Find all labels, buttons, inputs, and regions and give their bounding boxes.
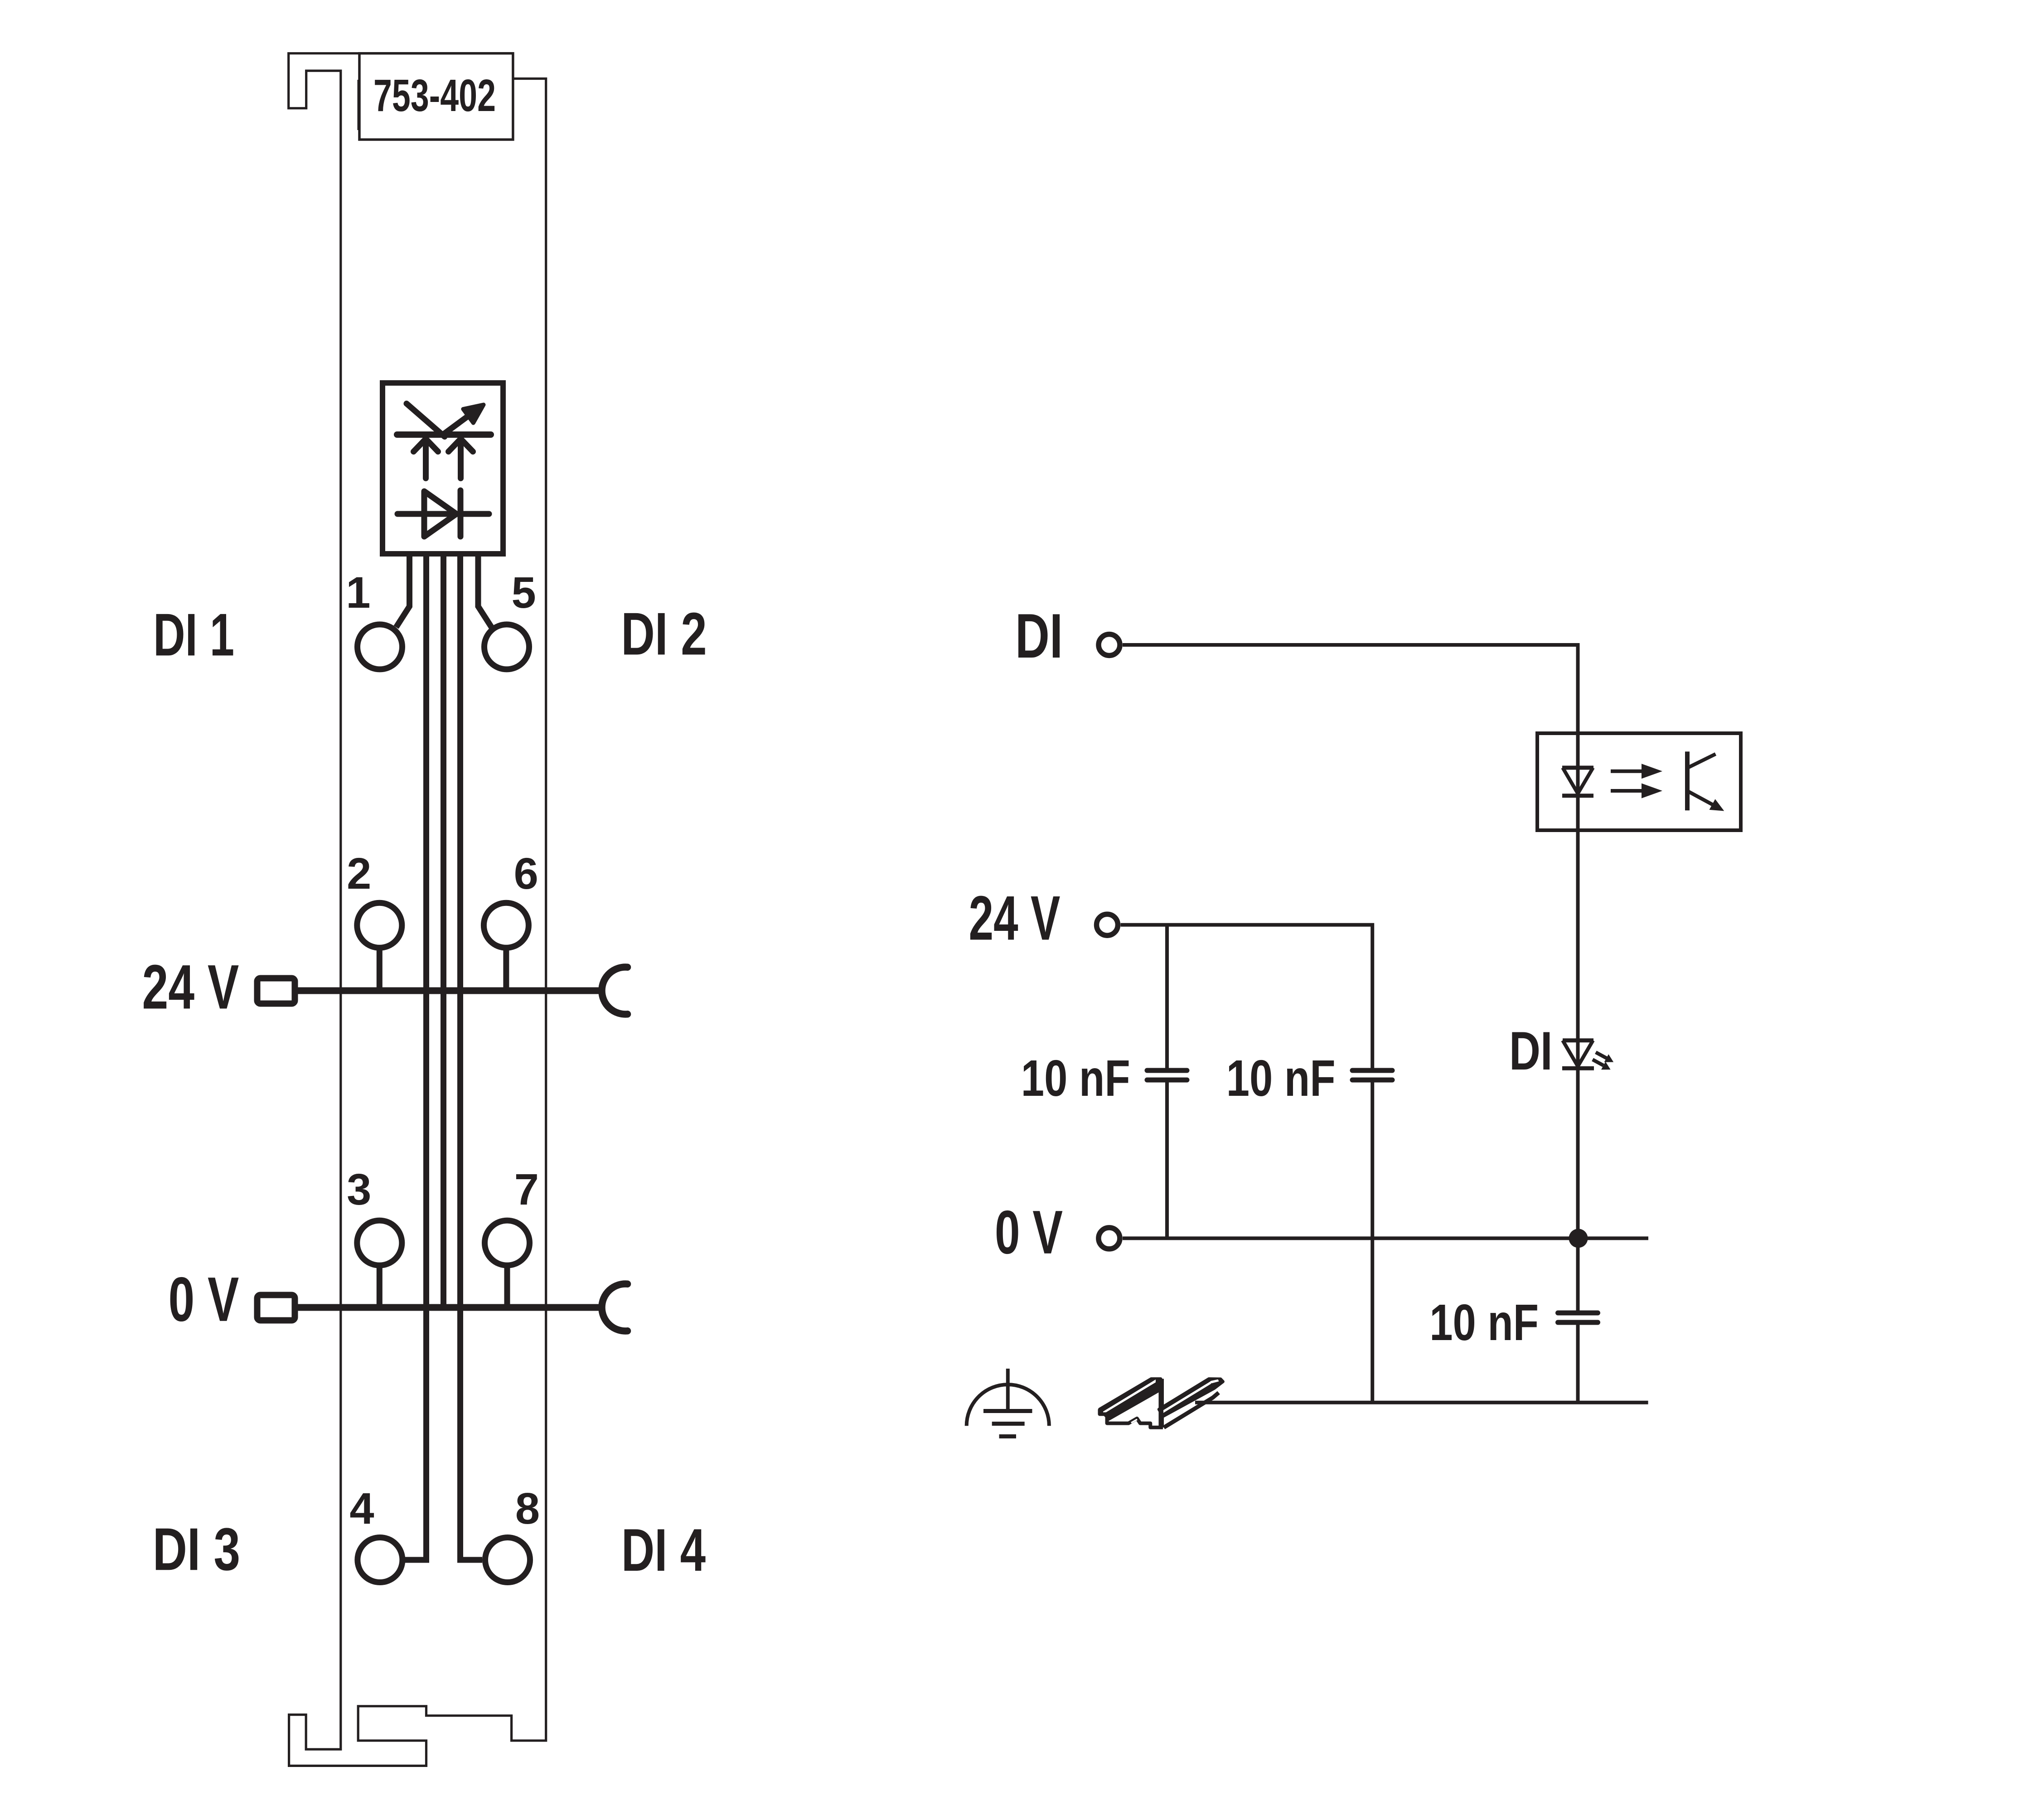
wire below capacitor C3 to ground line: [1576, 1322, 1580, 1403]
stem terminal6 to 24V bus: [503, 947, 509, 991]
optocoupler box U2: [1537, 733, 1741, 830]
U2 LED anode bar: [1562, 766, 1593, 770]
capacitor C2 plates: [1352, 1070, 1392, 1080]
wire DI to optocoupler: [1123, 645, 1578, 1313]
ground line: [1195, 1401, 1648, 1404]
svg-text:DI 3: DI 3: [153, 1516, 240, 1583]
terminal circle 4: [358, 1538, 402, 1583]
U1 icon: diagonal-in line: [407, 404, 445, 437]
svg-text:24 V: 24 V: [969, 883, 1061, 954]
wire common to 0V bus: [441, 551, 446, 1307]
terminal circle 2: [357, 903, 402, 948]
svg-text:10 nF: 10 nF: [1429, 1294, 1539, 1351]
svg-text:1: 1: [346, 568, 370, 617]
svg-text:24 V: 24 V: [142, 952, 239, 1022]
0V spring contact arc: [602, 1284, 628, 1331]
svg-text:DI: DI: [1509, 1021, 1553, 1081]
U1 icon: output arrow: [443, 405, 484, 435]
24V spring contact arc: [602, 967, 628, 1014]
terminal circle 6: [484, 903, 528, 948]
svg-text:DI 4: DI 4: [621, 1517, 706, 1584]
capacitor C1 upper wire: [1165, 925, 1169, 1070]
DI terminal circle: [1099, 634, 1120, 656]
U2 coupling arrow lower: [1611, 784, 1662, 799]
wire pin1: [396, 551, 410, 627]
terminal circle 1: [358, 624, 402, 669]
svg-text:2: 2: [347, 849, 371, 898]
U2 LED triangle: [1563, 768, 1593, 794]
0V power bus: [297, 1304, 602, 1311]
svg-text:3: 3: [347, 1165, 371, 1214]
svg-text:DI: DI: [1015, 601, 1063, 671]
U1 icon: input bar: [397, 431, 491, 438]
svg-text:10 nF: 10 nF: [1021, 1050, 1130, 1107]
U1 icon: right up-arrow: [449, 439, 473, 478]
rail notch highlight: [1131, 1419, 1137, 1423]
earth ground symbol: [967, 1369, 1049, 1437]
rail left ridge highlight stripe: [1103, 1380, 1156, 1414]
rail bottom-right edge: [1164, 1393, 1219, 1428]
svg-text:DI 2: DI 2: [621, 600, 707, 668]
svg-text:753-402: 753-402: [373, 70, 496, 121]
rail left ridge top face: [1100, 1379, 1161, 1419]
rail front and bottom profile: [1100, 1409, 1163, 1428]
optocoupler block U1: [383, 383, 503, 554]
U2 coupling arrow upper: [1611, 764, 1662, 779]
0V power jumper contact (left marker): [257, 1295, 295, 1321]
svg-text:5: 5: [511, 568, 536, 617]
U2 LED cathode bar: [1562, 794, 1593, 798]
terminal circle 3: [357, 1220, 402, 1265]
svg-text:DI 1: DI 1: [153, 601, 234, 668]
module 753-402 body outline: [289, 53, 546, 1766]
stem terminal3 to 0V bus: [377, 1265, 383, 1307]
rail right ridge highlight stripe: [1163, 1381, 1211, 1413]
stem terminal7 to 0V bus: [504, 1265, 510, 1307]
svg-text:0 V: 0 V: [169, 1264, 239, 1335]
svg-text:4: 4: [349, 1484, 374, 1533]
indicator LED triangle: [1563, 1041, 1593, 1066]
indicator LED emission arrow lower: [1593, 1060, 1611, 1070]
wire pin5: [478, 551, 492, 627]
U1 icon: diode: [397, 490, 489, 537]
indicator LED cathode bar: [1562, 1066, 1594, 1070]
wire pin8: [460, 551, 483, 1560]
capacitor C1 lower wire: [1165, 1080, 1169, 1238]
svg-text:0 V: 0 V: [995, 1198, 1063, 1267]
wire 24V to corner and down: [1121, 925, 1373, 1070]
rail left ridge far end column: [1159, 1379, 1164, 1428]
24V power bus: [297, 987, 602, 994]
terminal circle 5: [484, 624, 529, 669]
svg-text:6: 6: [514, 849, 538, 898]
capacitor C1 plates: [1147, 1070, 1187, 1080]
0V terminal circle: [1099, 1228, 1120, 1249]
svg-text:10 nF: 10 nF: [1226, 1050, 1336, 1107]
indicator LED emission arrow upper: [1596, 1052, 1613, 1062]
terminal circle 8: [485, 1538, 530, 1583]
capacitor C3 plates: [1558, 1313, 1598, 1322]
U2 phototransistor: [1687, 751, 1724, 811]
label box 753-402: [359, 53, 513, 140]
24V power jumper contact (left marker): [257, 978, 295, 1004]
wire below capacitor C2 crossing 0V to ground line: [1371, 1080, 1374, 1403]
DIN carrier rail symbol: [1100, 1379, 1223, 1428]
indicator LED DI anode bar: [1563, 1038, 1593, 1042]
24V terminal circle: [1097, 914, 1118, 935]
U1 icon: left up-arrow: [414, 439, 438, 478]
module label-plate tick: [358, 80, 359, 130]
stem terminal2 to 24V bus: [377, 947, 383, 991]
0V wire: [1123, 1236, 1648, 1240]
svg-text:7: 7: [514, 1165, 539, 1214]
junction node 0V: [1569, 1229, 1588, 1248]
terminal circle 7: [485, 1220, 530, 1265]
rail right ridge top face: [1159, 1379, 1223, 1416]
svg-text:8: 8: [515, 1484, 540, 1533]
wire pin4: [405, 551, 426, 1560]
